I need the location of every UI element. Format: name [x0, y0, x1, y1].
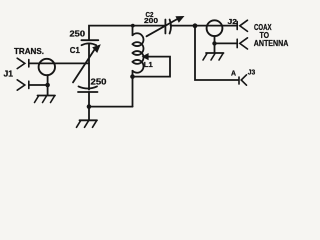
capacitor C1 bottom section: [78, 86, 98, 92]
arrow L1 tap: [133, 53, 171, 77]
svg-text:250: 250: [70, 29, 86, 38]
svg-text:J2: J2: [228, 17, 238, 26]
junction J2 shield: [212, 41, 216, 45]
ground J2: [203, 53, 224, 60]
wire branch to J3: [195, 26, 238, 80]
ground J1: [35, 96, 56, 103]
connector J1 jack body: [39, 59, 55, 75]
connector J2 plug shield contact: [237, 38, 247, 49]
svg-text:J3: J3: [248, 68, 256, 77]
inductor L1: [133, 33, 144, 73]
connector J1 plug center contact: [17, 58, 29, 68]
arrow C1 rotor: [73, 44, 101, 82]
wire J2 shell down: [214, 36, 216, 53]
wire C1 mid (between sections): [88, 44, 90, 90]
junction C1 bottom: [87, 104, 92, 109]
junction L1 top at bus: [131, 24, 135, 28]
connector J1 plug shield contact: [17, 80, 29, 90]
junction L1 tap to bottom lead: [130, 74, 135, 79]
arrow C2 rotor: [147, 16, 185, 36]
connector J2 plug center contact: [237, 20, 247, 31]
svg-text:ANTENNA: ANTENNA: [254, 39, 289, 48]
svg-text:L1: L1: [144, 60, 154, 69]
wire J1 shield contact to shell: [29, 84, 48, 86]
svg-text:J1: J1: [4, 70, 14, 79]
wire C1 junction down to ground: [88, 107, 90, 120]
wire L1 bottom lead: [132, 71, 134, 107]
junction J1 shield: [45, 83, 50, 88]
wire bottom bus C1 to L1: [89, 106, 133, 108]
wire J2 shield line: [215, 42, 238, 44]
wire J1 center contact to C1 rotor: [29, 62, 89, 64]
wire J1 shell down to ground: [47, 75, 49, 95]
ground C1: [77, 120, 98, 127]
junction antenna branch: [193, 23, 198, 28]
capacitor C2: [165, 20, 171, 34]
svg-text:250: 250: [91, 78, 108, 87]
wire L1 top lead: [132, 26, 134, 36]
svg-text:TRANS.: TRANS.: [14, 47, 44, 56]
wire top bus C2 to J2: [171, 25, 237, 27]
connector J3 contact: [239, 75, 247, 85]
wire C1 bottom lead: [88, 92, 90, 107]
capacitor C1 top section: [81, 40, 98, 45]
svg-text:A: A: [231, 69, 236, 78]
svg-text:C1: C1: [70, 46, 80, 55]
wire top bus C1 to C2: [89, 26, 165, 40]
connector J2 jack body: [207, 20, 223, 36]
svg-text:200: 200: [144, 16, 158, 25]
